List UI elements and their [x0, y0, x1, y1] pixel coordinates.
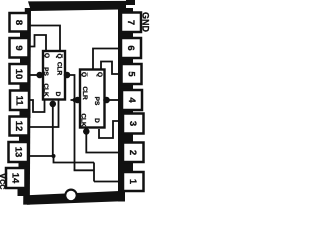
pin 7 box — [121, 13, 141, 33]
wire junction down and right to pin1 — [54, 156, 120, 182]
top bar right nub — [126, 0, 135, 5]
wire pin11 to FF1 CLK — [29, 100, 45, 113]
wire pin8 to FF1 Qbar — [29, 26, 60, 52]
wire pin6 to FF2 Qbar — [93, 49, 120, 70]
IC body top edge — [28, 1, 126, 11]
svg-text:13: 13 — [13, 147, 24, 158]
wire pin5 to FF2 Q — [101, 62, 120, 75]
svg-text:Q̅: Q̅ — [80, 72, 88, 77]
svg-text:12: 12 — [13, 121, 24, 132]
pin 6 box — [121, 38, 141, 58]
left gap filler 13/14 — [19, 161, 30, 169]
svg-text:11: 11 — [14, 95, 25, 106]
pin 8 box — [10, 13, 29, 32]
svg-text:CLK: CLK — [42, 83, 49, 97]
pin 2 box — [123, 143, 144, 163]
svg-text:14: 14 — [10, 173, 21, 184]
wire pin9 to FF1 Q — [29, 35, 46, 51]
svg-text:2: 2 — [127, 150, 138, 155]
left gap filler 12/13 — [19, 135, 30, 144]
right gap filler 4/3 — [119, 109, 133, 115]
wire CLR rail lower elbow — [74, 163, 94, 182]
bubble FF1 PS — [37, 73, 42, 78]
IC body right edge — [118, 8, 125, 202]
right gap filler 5/4 — [119, 83, 133, 91]
bubble FF2 CLK — [84, 129, 89, 134]
svg-text:7: 7 — [125, 20, 136, 25]
right gap filler 7/6 — [119, 31, 133, 39]
right gap filler top/7 — [119, 8, 133, 14]
pin 3 box — [123, 114, 144, 134]
bubble FF2 CLR left — [75, 98, 80, 103]
wire FF1 CLR down right rail — [69, 75, 74, 170]
svg-text:CLR: CLR — [81, 86, 88, 100]
right gap filler 6/5 — [119, 57, 133, 65]
left gap filler 8/9 — [20, 31, 31, 40]
svg-text:10: 10 — [13, 69, 24, 80]
pin 5 box — [122, 64, 142, 84]
svg-text:Q: Q — [96, 72, 103, 77]
node junction pin13 — [52, 154, 56, 158]
pin 12 box — [10, 117, 29, 136]
wire pin4 to FF2 PS — [109, 99, 120, 101]
pin 9 box — [10, 38, 29, 58]
svg-text:D: D — [54, 92, 61, 97]
left gap filler 11/12 — [20, 109, 31, 118]
right gap filler 3/2 — [119, 133, 133, 144]
svg-text:Q: Q — [43, 53, 50, 58]
left gap filler 10/11 — [20, 83, 31, 92]
pin 13 box — [9, 142, 29, 162]
pin 10 box — [10, 64, 29, 84]
bubble FF1 CLR right — [65, 73, 70, 78]
wire FF1 bottom bubble down to junction — [52, 106, 54, 156]
svg-text:CLK: CLK — [80, 113, 87, 127]
pin 14 box — [6, 168, 26, 188]
svg-text:PS: PS — [42, 67, 49, 76]
svg-text:9: 9 — [13, 45, 24, 50]
flip-flop U1b box — [80, 70, 105, 128]
svg-text:GND: GND — [140, 12, 150, 33]
left gap filler 9/10 — [20, 57, 31, 66]
pin 11 box — [10, 91, 29, 111]
wire pin12 to FF1 D — [29, 100, 59, 128]
pin 4 box — [122, 90, 142, 110]
wire pin2 to FF2 CLK — [86, 134, 119, 153]
wire pin13 — [29, 155, 54, 157]
right gap filler 2/1 — [119, 161, 133, 173]
svg-text:5: 5 — [126, 71, 137, 77]
bubble FF1 bottom CLR — [50, 102, 55, 107]
svg-text:8: 8 — [13, 20, 24, 25]
notch — [64, 189, 77, 202]
node junction CLR net — [73, 98, 77, 102]
IC body bottom edge — [27, 191, 122, 205]
pin 1 box — [123, 172, 144, 191]
svg-text:Q̅: Q̅ — [56, 53, 64, 58]
left gap filler below 14 — [18, 187, 30, 196]
svg-text:CLR: CLR — [56, 62, 63, 76]
svg-text:3: 3 — [127, 121, 138, 126]
bubble FF2 PS — [104, 98, 109, 103]
svg-text:4: 4 — [126, 97, 137, 103]
wire pin3 to FF2 D — [99, 121, 120, 138]
pin boxes left — [6, 13, 144, 192]
svg-text:1: 1 — [127, 179, 138, 185]
flip-flop U1a box — [43, 51, 65, 100]
wire stub to FF2 CLR — [71, 99, 76, 101]
IC body left edge — [23, 8, 31, 205]
svg-text:D: D — [93, 118, 100, 123]
wire pin10 to FF1 PS — [29, 74, 37, 76]
svg-text:PS: PS — [93, 97, 100, 106]
svg-text:6: 6 — [125, 45, 136, 50]
